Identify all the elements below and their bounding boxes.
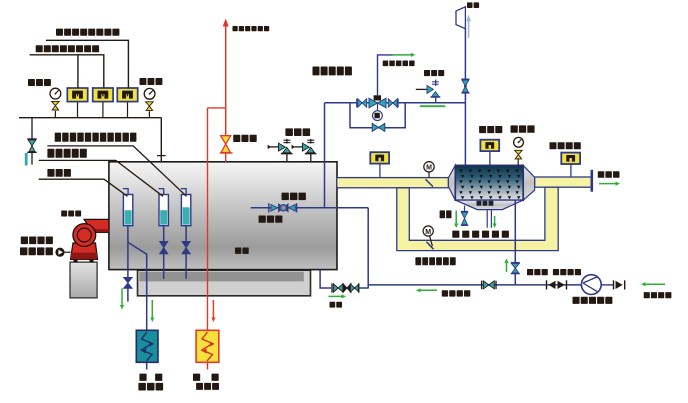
main steam angle valve 2 [292, 146, 303, 148]
boiler base foundation [138, 270, 311, 296]
label 节能器 on funnel [477, 201, 482, 206]
stack end flange [590, 170, 593, 192]
feed control valve group 给水调节阀 [356, 99, 358, 108]
blowdown drop from drum [320, 270, 331, 288]
safety valve 安全阀 [221, 136, 231, 144]
flue damper 2 with M actuator [430, 236, 433, 246]
pump suction pipe and check [601, 284, 613, 286]
blowdown arrow green [121, 288, 123, 306]
burner motor box [70, 262, 97, 298]
label 主汽阀 [285, 128, 293, 136]
pressure gauge right 压力表 [140, 78, 147, 85]
left drop with shutoff valve to drum [31, 118, 33, 165]
steam sample cooler 蒸汽取样器 [196, 330, 219, 362]
label 至安全放汽口 [233, 26, 238, 31]
gauge tube 1 drain line and valve [127, 226, 129, 278]
label 给水式压力控制器 [56, 29, 63, 36]
label 水位计 with leader [47, 169, 54, 177]
label 电接点式锅炉水位控制器 with leader [55, 133, 61, 142]
label 内置式节能器 [452, 231, 459, 238]
feed-in line with check and stop valve [251, 207, 369, 209]
leader lines to controller boxes [46, 40, 128, 88]
burner fan volute 鼓风机 [71, 243, 98, 259]
check valves pair [546, 280, 548, 289]
label 止回阀 [259, 216, 266, 223]
water level gauge tube 1 水位计 [123, 195, 132, 226]
economizer bypass feed pipe [367, 208, 369, 289]
vent flag 排汽口 [456, 7, 465, 29]
label 水位控制器 [383, 61, 389, 67]
flue TI box on duct [379, 164, 381, 177]
steam sample arrow red [212, 300, 214, 319]
blowdown valve group [331, 283, 333, 292]
feedwater control line [325, 102, 466, 104]
pump line valve [481, 281, 483, 289]
economizer feedwater riser [514, 200, 516, 285]
label 断电式压力控制器 [36, 45, 43, 52]
label 炉 水 取样器 [139, 374, 146, 381]
label 排污 [330, 302, 336, 308]
economizer bottom funnel [456, 200, 523, 209]
economizer right cone [523, 165, 534, 200]
label 排汽 [467, 2, 473, 8]
steam sample line red [208, 107, 226, 109]
label 给水调节阀 [313, 67, 320, 76]
instrument manifold line [19, 117, 161, 119]
boiler feed pump 锅炉给水泵 [581, 275, 601, 295]
green flow mark under line [420, 105, 446, 107]
label 排污 economizer [440, 210, 445, 218]
flue bypass duct U [397, 187, 558, 250]
feedwater inlet arrow green [644, 283, 665, 285]
economizer blowdown valve [464, 206, 466, 212]
economizer left cone [448, 165, 455, 200]
boiler water sample cooler 炉水取样器 [136, 330, 158, 362]
blowdown arrow green left [455, 211, 457, 226]
label 锅炉给水 [644, 292, 650, 298]
label 烟气调节阀门 [415, 257, 421, 265]
economizer tube dots [459, 170, 520, 200]
boiler water sample line to cooler [128, 242, 147, 330]
main steam angle valve 1 [268, 146, 279, 148]
gauge tube 3 drain valve [185, 226, 187, 242]
feedwater drop pipe [324, 103, 326, 208]
vent riser valve [461, 78, 469, 80]
label 温度计 [479, 126, 486, 133]
label 上水阀 [282, 193, 289, 201]
control signal riser with green arrow [378, 55, 395, 95]
bypass loop with valve [350, 103, 405, 128]
flue arrow to stack green [599, 183, 617, 185]
label 锅炉给水泵 [573, 297, 580, 304]
label 鼓风机 [61, 211, 67, 217]
flue duct economizer to stack [535, 177, 592, 187]
water level gauge tube 3 水位计 [181, 195, 190, 226]
flue damper 1 with M actuator [428, 172, 430, 178]
water level gauge tube 2 水位计 [159, 195, 168, 226]
label 安全阀 [233, 135, 240, 142]
economizer body 节能器 [455, 165, 523, 200]
label 截止阀 [424, 70, 430, 76]
teal drain spout [25, 153, 28, 166]
label 压力表 economizer [511, 125, 518, 132]
feedwater pump line [368, 284, 581, 286]
economizer TI box [489, 151, 491, 165]
economizer pressure gauge with cock [517, 159, 519, 166]
sample flow arrow green [151, 300, 153, 319]
vent riser pipe [464, 29, 466, 166]
label 至烟囱 [598, 171, 605, 178]
label 排烟温度 [550, 142, 557, 149]
stop valve angle type 截止阀 [416, 88, 427, 90]
stack TI box [570, 164, 572, 177]
drain arrow green right [494, 216, 496, 225]
riser flow arrow green [506, 261, 508, 272]
label 给水管路 [442, 290, 448, 296]
riser stop valve [511, 262, 520, 264]
vent steam arrow light blue [468, 21, 470, 38]
economizer drain tube [486, 210, 488, 228]
label 蒸 汽 取样器 [193, 374, 200, 381]
svg-text:M: M [426, 165, 432, 172]
label 锅炉 [235, 248, 241, 254]
burner control motor circle [55, 248, 64, 257]
label 水位报警器 with leader [47, 149, 54, 158]
label 燃油燃烧 / 控制机组 [21, 237, 28, 245]
blowdown arrow green [329, 295, 344, 297]
svg-text:M: M [425, 229, 431, 236]
manifold drop to drum with tick [160, 118, 162, 162]
flue duct boiler to economizer [337, 178, 449, 188]
gauge tube 2 drain valve [163, 226, 165, 242]
pressure gauge left 压力表 [28, 79, 35, 86]
pressure controller boxes x3 [77, 102, 79, 118]
label 截止阀 止回阀 right [527, 269, 533, 275]
pump line flow arrow green [419, 289, 437, 291]
safety valve discharge pipe 红色放汽管 [225, 24, 227, 136]
boiler shell 锅炉 [109, 162, 337, 270]
